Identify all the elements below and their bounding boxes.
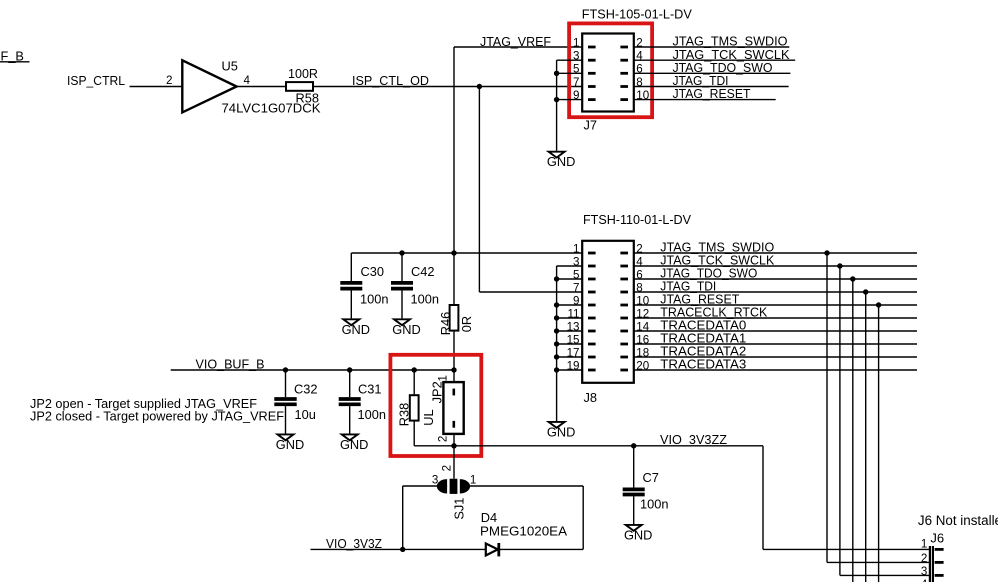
junction J8 bus y344 xyxy=(554,341,559,346)
svg-text:4: 4 xyxy=(244,74,251,87)
wire drop 2 to J6 xyxy=(839,266,841,575)
svg-text:C32: C32 xyxy=(294,382,317,397)
J7 pins 9/10 xyxy=(588,98,596,101)
wire VIO_BUF_B to R38 xyxy=(413,370,415,395)
wire J8 bus to pin at y370 xyxy=(557,369,583,371)
svg-text:1: 1 xyxy=(573,242,579,255)
J7 pins 7/8 xyxy=(588,85,596,88)
diode D4 xyxy=(486,544,498,556)
J7 pins 1/2 xyxy=(588,46,596,49)
junction R46 rail on VREF line xyxy=(451,250,456,255)
solder jumper SJ1 xyxy=(437,479,447,493)
J8 pins 7/8 xyxy=(588,291,596,294)
svg-text:100n: 100n xyxy=(360,291,388,306)
svg-text:R38: R38 xyxy=(397,403,412,426)
junction drop 2 to J6 xyxy=(837,263,842,268)
wire into J6 pin 2 xyxy=(827,561,929,563)
svg-text:1: 1 xyxy=(437,375,450,381)
wire JTAG_VREF to J7 pin 1 xyxy=(454,46,582,48)
svg-text:J6: J6 xyxy=(930,531,944,546)
J8 pins 13/14 xyxy=(588,330,596,333)
wire drop 1 to J6 xyxy=(826,253,828,562)
ground below J7 xyxy=(549,152,565,158)
junction SJ1 pad 3 branch xyxy=(400,547,405,552)
wire R58 to J7 pin 7 (net ISP_CTL_OD) xyxy=(313,86,582,88)
junction J8 bus y305 xyxy=(554,302,559,307)
wire ISP_CTL_OD down to J8 pin 7 xyxy=(478,87,480,293)
J8 pins 3/4 xyxy=(588,265,596,268)
wire J8 bus to pin at y344 xyxy=(557,343,583,345)
wire VREF line C30/C42/R46 to J8 pin 1 xyxy=(351,252,582,254)
wire J8 pin 12 net TRACECLK_RTCK xyxy=(634,317,917,319)
wire J8 bus to pin at y357 xyxy=(557,356,583,358)
junction JP2 pin 1 xyxy=(451,367,456,372)
svg-text:VIO_3V3ZZ: VIO_3V3ZZ xyxy=(660,432,727,447)
wire J7 pin 3 to bus xyxy=(557,59,583,61)
wire J8 pin 20 net TRACEDATA3 xyxy=(634,369,917,371)
junction J8 bus y357 xyxy=(554,354,559,359)
junction R38 xyxy=(412,367,417,372)
wire VIO_BUF_B to JP2 pin 1 xyxy=(453,370,455,382)
junction C7 xyxy=(631,443,636,448)
junction drop 4 to J6 xyxy=(863,289,868,294)
svg-text:2: 2 xyxy=(441,465,454,471)
svg-text:GND: GND xyxy=(392,322,420,337)
junction C31 xyxy=(347,367,352,372)
wire J8 pin 2 net JTAG_TMS_SWDIO xyxy=(634,252,917,254)
svg-text:100n: 100n xyxy=(640,497,668,512)
svg-text:C31: C31 xyxy=(358,382,381,397)
svg-text:TRACEDATA3: TRACEDATA3 xyxy=(660,357,746,372)
ground below C31 xyxy=(342,434,358,440)
ground below C42 xyxy=(394,319,410,325)
svg-text:U5: U5 xyxy=(222,59,238,74)
wire VIO_BUF_B rail xyxy=(171,369,454,371)
svg-text:GND: GND xyxy=(276,437,304,452)
wire J7 pin 10 net JTAG_RESET xyxy=(634,99,776,101)
svg-text:JTAG_RESET: JTAG_RESET xyxy=(673,86,751,101)
svg-text:J7: J7 xyxy=(584,118,598,133)
junction C32 xyxy=(283,367,288,372)
resistor R58 xyxy=(286,82,313,91)
J8 pins 19/20 xyxy=(588,369,596,372)
junction drop 1 to J6 xyxy=(824,250,829,255)
wire J7 pin 4 net JTAG_TCK_SWCLK xyxy=(634,59,795,61)
junction J7 pin 5 xyxy=(554,71,559,76)
svg-text:PMEG1020EA: PMEG1020EA xyxy=(480,523,567,538)
wire J8 pin 4 net JTAG_TCK_SWCLK xyxy=(634,265,917,267)
junction drop 3 to J6 xyxy=(850,276,855,281)
wire J8 pin 16 net TRACEDATA1 xyxy=(634,343,917,345)
wire JTAG_VREF down to VREF rail xyxy=(453,47,455,253)
svg-text:C42: C42 xyxy=(411,264,434,279)
svg-text:UL: UL xyxy=(421,409,436,425)
wire J8 bus to pin at y318 xyxy=(557,317,583,319)
svg-text:3: 3 xyxy=(432,474,438,487)
svg-text:JP2: JP2 xyxy=(430,381,445,403)
wire U5 pin 4 to R58 xyxy=(237,86,286,88)
connector J6 body xyxy=(929,546,931,582)
svg-text:10u: 10u xyxy=(295,407,316,422)
svg-text:100n: 100n xyxy=(358,407,386,422)
wire drop 5 to J6 xyxy=(878,305,880,582)
svg-text:GND: GND xyxy=(547,424,575,439)
wire drop 3 to J6 xyxy=(852,279,854,582)
ground below C7 xyxy=(626,525,642,531)
svg-text:0R: 0R xyxy=(459,316,474,332)
wire J8 pin 18 net TRACEDATA2 xyxy=(634,356,917,358)
wire JP2 pin 2 down xyxy=(453,434,455,446)
wire J7 pin 5 to bus xyxy=(557,72,583,74)
wire J8 bus to pin at y279 xyxy=(557,278,583,280)
junction drop 5 to J6 xyxy=(876,302,881,307)
connector J8 body xyxy=(582,241,634,383)
svg-text:R58: R58 xyxy=(296,91,319,106)
wire J8 bus to pin at y305 xyxy=(557,304,583,306)
J8 pins 15/16 xyxy=(588,343,596,346)
wire J7 pin 8 net JTAG_TDI xyxy=(634,86,789,88)
capacitor C31 xyxy=(349,370,351,397)
svg-text:J8: J8 xyxy=(584,390,598,405)
svg-text:C30: C30 xyxy=(361,264,384,279)
svg-text:100n: 100n xyxy=(411,291,439,306)
J7 pins 3/4 xyxy=(588,59,596,62)
wire SJ1 pad 3 to diode anode xyxy=(403,485,447,487)
wire J7 pin 2 net JTAG_TMS_SWDIO xyxy=(634,46,790,48)
wire J8 pin 6 net JTAG_TDO_SWO xyxy=(634,278,917,280)
svg-text:ISP_CTRL: ISP_CTRL xyxy=(67,73,125,88)
ground below C32 xyxy=(278,434,294,440)
wire ISP_CTRL to U5 pin 2 xyxy=(130,86,183,88)
wire SJ1 pad 1 to diode cathode xyxy=(469,485,583,487)
svg-text:2: 2 xyxy=(921,552,927,565)
wire J8 pin 10 net JTAG_RESET xyxy=(634,304,917,306)
junction on ISP_CTL_OD xyxy=(477,84,482,89)
svg-text:2: 2 xyxy=(166,74,172,87)
connector J7 body xyxy=(582,34,634,112)
svg-text:ISP_CTL_OD: ISP_CTL_OD xyxy=(352,73,429,88)
junction J8 bus y370 xyxy=(554,367,559,372)
capacitor C7 xyxy=(633,446,635,488)
svg-text:3: 3 xyxy=(921,565,927,578)
svg-text:JP2 closed - Target powered by: JP2 closed - Target powered by JTAG_VREF xyxy=(30,408,284,423)
svg-text:1: 1 xyxy=(470,474,476,487)
jumper JP2 xyxy=(443,382,463,434)
svg-text:7: 7 xyxy=(573,76,579,89)
svg-text:7: 7 xyxy=(573,281,579,294)
J8 pins 11/12 xyxy=(588,317,596,320)
capacitor C42 xyxy=(401,253,403,281)
wire J7 pin 9 to bus xyxy=(557,99,583,101)
wire JP2 pin 2 to SJ1 pad 2 xyxy=(453,446,455,479)
svg-text:GND: GND xyxy=(624,527,652,542)
highlight box around J7 xyxy=(569,23,652,117)
svg-text:C7: C7 xyxy=(643,470,659,485)
wire VIO_3V3Z to D4 xyxy=(311,548,486,550)
svg-text:100R: 100R xyxy=(288,66,318,81)
wire R46 to VIO_BUF_B line xyxy=(453,331,455,370)
capacitor C30 xyxy=(350,253,352,281)
svg-text:FTSH-110-01-L-DV: FTSH-110-01-L-DV xyxy=(583,212,691,227)
svg-text:FTSH-105-01-L-DV: FTSH-105-01-L-DV xyxy=(582,7,692,22)
J6 pin 2 xyxy=(935,561,944,564)
svg-text:F_B: F_B xyxy=(1,48,24,63)
wire VREF line to R46 xyxy=(453,253,455,305)
wire D4 cathode xyxy=(499,548,583,550)
svg-text:GND: GND xyxy=(340,437,368,452)
junction JP2 pin 2 / VIO_3V3ZZ xyxy=(451,443,456,448)
ground below C30 xyxy=(343,319,359,325)
J8 pins 17/18 xyxy=(588,356,596,359)
wire into J6 pin 3 xyxy=(840,574,929,576)
op-amp U5 buffer 74LVC1G07DCK xyxy=(182,60,236,112)
resistor R38 xyxy=(410,395,419,420)
wire J8 pin 14 net TRACEDATA0 xyxy=(634,330,917,332)
wire drop 4 to J6 xyxy=(865,292,867,582)
wire J7 pin 6 net JTAG_TDO_SWO xyxy=(634,72,791,74)
svg-text:1: 1 xyxy=(573,36,579,49)
svg-text:2: 2 xyxy=(437,436,450,442)
junction J7 pin 9 xyxy=(554,97,559,102)
wire VIO_3V3ZZ rail xyxy=(454,445,763,447)
J8 pins 5/6 xyxy=(588,278,596,281)
junction J8 bus y331 xyxy=(554,328,559,333)
svg-text:R46: R46 xyxy=(438,312,453,335)
wire J7 GND bus xyxy=(556,60,558,151)
junction C42 on VREF line xyxy=(399,250,404,255)
svg-text:SJ1: SJ1 xyxy=(451,498,466,520)
wire VIO_3V3ZZ down to J6 pin 1 xyxy=(762,446,764,550)
wire J8 bus to pin at y331 xyxy=(557,330,583,332)
J8 pins 1/2 xyxy=(588,252,596,255)
ground below J8 xyxy=(549,422,565,428)
J6 pin 3 xyxy=(935,574,944,577)
svg-text:4: 4 xyxy=(921,578,928,582)
junction J8 bus y279 xyxy=(554,276,559,281)
junction J8 bus y318 xyxy=(554,315,559,320)
svg-text:GND: GND xyxy=(547,154,575,169)
capacitor C32 xyxy=(285,370,287,397)
wire J8 GND bus xyxy=(556,266,558,421)
wire R38 to JP2 pin 2 xyxy=(413,421,415,446)
svg-text:1: 1 xyxy=(921,537,927,550)
J6 pin 1 xyxy=(935,548,944,551)
resistor R46 xyxy=(450,305,459,331)
svg-text:J6 Not installed: J6 Not installed xyxy=(918,513,998,528)
wire J8 bus to pin at y266 xyxy=(557,265,583,267)
wire J8 pin 8 net JTAG_TDI xyxy=(634,291,917,293)
J8 pins 9/10 xyxy=(588,304,596,307)
svg-text:GND: GND xyxy=(342,322,370,337)
highlight box around JP2 xyxy=(390,355,481,456)
wire into J8 pin 7 xyxy=(479,291,582,293)
J7 pins 5/6 xyxy=(588,72,596,75)
